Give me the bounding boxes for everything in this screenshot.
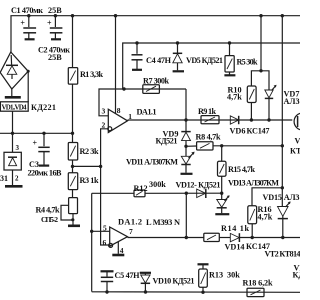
node VD9 R8 xyxy=(184,145,187,148)
node R16 bracket xyxy=(281,186,284,189)
wire bridge minus lead xyxy=(11,89,13,96)
wire bottom rail xyxy=(92,291,300,294)
svg-text:R7 300k: R7 300k xyxy=(143,77,169,86)
svg-text:+: + xyxy=(20,19,25,28)
resistor R13 xyxy=(198,264,209,292)
svg-text:R5 30k: R5 30k xyxy=(237,58,258,67)
capacitor C3 xyxy=(33,133,50,165)
ground stab xyxy=(5,185,23,188)
wire bridge out down xyxy=(12,111,14,133)
wire VD14 to edge xyxy=(239,237,300,239)
resistor R9 xyxy=(201,116,219,124)
regulator DA 431 xyxy=(4,133,21,185)
wire bridge plus lead xyxy=(27,71,29,102)
svg-text:VD1..VD4: VD1..VD4 xyxy=(2,104,28,112)
svg-text:VT: VT xyxy=(295,137,301,146)
svg-text:R12: R12 xyxy=(134,184,148,193)
svg-text:4,7k: 4,7k xyxy=(258,213,273,222)
resistor R18 xyxy=(247,288,264,296)
svg-text:4: 4 xyxy=(120,246,124,255)
svg-text:C4 47Н: C4 47Н xyxy=(146,56,172,65)
svg-text:КД521: КД521 xyxy=(156,137,178,146)
wire DA1.1 output xyxy=(128,119,293,121)
svg-text:220мк 16В: 220мк 16В xyxy=(28,169,63,178)
wire R7 to output xyxy=(185,89,187,120)
svg-text:VD12- КД521: VD12- КД521 xyxy=(176,181,221,190)
svg-text:R13: R13 xyxy=(209,271,223,280)
node R1 bottom rail xyxy=(71,132,74,135)
transistor VT1 xyxy=(294,113,311,130)
wire bracket R16 xyxy=(252,188,282,206)
svg-text:DA1.1: DA1.1 xyxy=(137,108,157,117)
node R15 top xyxy=(220,144,223,147)
node feedback rail B join xyxy=(122,87,125,90)
capacitor C2 xyxy=(47,16,62,40)
LED VD7 xyxy=(265,85,277,120)
svg-text:3: 3 xyxy=(102,107,106,116)
svg-text:КТ8: КТ8 xyxy=(290,147,300,156)
node bracket xyxy=(259,69,262,72)
node R1 top xyxy=(71,14,74,17)
node stab top xyxy=(11,132,14,135)
node C4 xyxy=(135,41,138,44)
wire reference to comparators xyxy=(73,165,101,167)
wire R8 to VT column xyxy=(213,145,282,147)
node VD15 bottom xyxy=(281,236,284,239)
node C3 top xyxy=(42,132,45,135)
wire R12 comparator2 input xyxy=(92,192,134,194)
node R13 bottom xyxy=(201,291,204,294)
node R2 R3 junction xyxy=(71,165,74,168)
node ref at pin2 line xyxy=(99,165,102,168)
diode VD12 xyxy=(197,189,206,198)
zener VD9 xyxy=(181,120,190,146)
svg-text:300k: 300k xyxy=(149,180,166,189)
terminal bar bridge xyxy=(5,96,21,99)
resistor R2 xyxy=(68,133,77,173)
resistor R14 xyxy=(204,233,220,241)
resistor R8 xyxy=(197,142,213,150)
node VD7 bottom xyxy=(267,118,270,121)
resistor R3 xyxy=(68,173,77,198)
svg-text:VD6: VD6 xyxy=(230,127,246,136)
node VT column join xyxy=(281,144,284,147)
node VD15 column top xyxy=(281,14,284,17)
diode VD10 xyxy=(140,273,151,292)
svg-text:L M393 N: L M393 N xyxy=(146,218,180,227)
ground DA1.2 xyxy=(112,254,124,257)
svg-text:КД221: КД221 xyxy=(31,103,56,112)
svg-text:+: + xyxy=(47,19,52,28)
svg-text:DA1.2: DA1.2 xyxy=(118,218,142,227)
capacitor C1 xyxy=(20,16,36,40)
svg-text:VD10 КД521: VD10 КД521 xyxy=(153,277,195,286)
svg-text:2: 2 xyxy=(15,175,19,183)
diode VD5 xyxy=(173,43,184,71)
svg-text:2: 2 xyxy=(102,121,106,130)
svg-text:4,7k: 4,7k xyxy=(227,93,242,102)
node C2 top xyxy=(54,14,57,17)
box VD1..VD4 label xyxy=(0,102,28,112)
capacitor C5 xyxy=(101,271,114,292)
svg-text:R9 1k: R9 1k xyxy=(198,107,216,116)
node C1 top xyxy=(27,14,30,17)
svg-text:R3 1k: R3 1k xyxy=(80,176,99,185)
LED VD11 xyxy=(181,146,195,174)
wire VT2 column xyxy=(281,16,283,206)
node R12 wire output link xyxy=(185,192,188,195)
ground R4 xyxy=(68,225,80,228)
svg-text:R4 4,7k: R4 4,7k xyxy=(36,206,60,215)
capacitor C4 xyxy=(132,43,143,70)
svg-text:25В: 25В xyxy=(48,6,62,15)
LED VD15 xyxy=(278,201,291,237)
LED VD13 xyxy=(215,193,229,214)
resistor R7 xyxy=(143,85,160,94)
diode VD6 xyxy=(230,116,238,124)
svg-text:3: 3 xyxy=(16,144,20,152)
svg-text:+: + xyxy=(33,139,38,148)
node DA1 pin8 supply xyxy=(114,14,117,17)
wire rail C regulated xyxy=(0,132,73,134)
svg-text:VD14: VD14 xyxy=(225,243,245,252)
svg-text:R18 6,2k: R18 6,2k xyxy=(243,279,273,288)
svg-text:30k: 30k xyxy=(227,271,240,280)
svg-text:R1 3,3k: R1 3,3k xyxy=(80,70,103,79)
wire pin2 vertical to pin6 xyxy=(101,129,109,245)
wire DA1.2 output xyxy=(128,237,204,239)
svg-text:КС147: КС147 xyxy=(247,127,270,136)
wire pin5 xyxy=(92,230,110,232)
svg-text:R14 1k: R14 1k xyxy=(221,224,249,233)
svg-text:8: 8 xyxy=(117,106,121,115)
node R5 xyxy=(228,41,231,44)
svg-text:C1 470мк: C1 470мк xyxy=(11,6,43,15)
wire pin3 hook xyxy=(99,89,186,116)
node VD10 bottom xyxy=(144,290,147,293)
wire pin4 ground xyxy=(117,242,119,254)
node LED column top xyxy=(259,14,262,17)
svg-text:VD5 КД521: VD5 КД521 xyxy=(186,56,223,65)
wire hook to pin5 xyxy=(91,193,93,291)
node pin5 xyxy=(90,230,93,233)
wire bracket R10 VD7 xyxy=(251,71,269,90)
svg-text:7: 7 xyxy=(129,227,133,236)
svg-text:6: 6 xyxy=(103,238,107,247)
svg-text:VD11 АЛ307КМ: VD11 АЛ307КМ xyxy=(126,158,178,167)
wire output node to R12 wire xyxy=(185,193,187,237)
node output link xyxy=(185,236,188,239)
wire top rail +V xyxy=(11,16,300,52)
node R16 bottom xyxy=(251,236,254,239)
svg-text:31: 31 xyxy=(0,174,8,183)
resistor R5 xyxy=(224,43,235,75)
svg-text:25В: 25В xyxy=(48,53,62,62)
svg-text:R8 4,7k: R8 4,7k xyxy=(196,133,221,142)
node C5 bottom xyxy=(105,290,108,293)
resistor R10 xyxy=(247,86,256,120)
node output R7 xyxy=(184,118,187,121)
svg-text:C5 47Н: C5 47Н xyxy=(115,271,141,280)
svg-text:VD13 АЛ307КМ: VD13 АЛ307КМ xyxy=(228,179,279,188)
resistor R15 xyxy=(218,146,227,193)
op-amp DA1.1 xyxy=(102,106,133,133)
bridge rectifier VD1..VD4 xyxy=(0,52,30,89)
svg-text:КД: КД xyxy=(293,271,301,280)
node VD13 top xyxy=(220,192,223,195)
op-amp DA1.2 xyxy=(103,224,134,256)
wire DA1 pin8 supply xyxy=(115,16,117,114)
wire LED supply column xyxy=(260,16,262,71)
svg-text:АЛ3: АЛ3 xyxy=(284,97,300,106)
node R10 bottom xyxy=(250,118,253,121)
trimmer R4 СП5-2 xyxy=(61,198,78,225)
diode VD14 xyxy=(230,233,239,242)
svg-text:VD15 АЛ3: VD15 АЛ3 xyxy=(263,193,300,202)
resistor R1 xyxy=(68,16,77,134)
svg-text:R15 4,7k: R15 4,7k xyxy=(228,165,255,174)
svg-text:VT2 КТ814: VT2 КТ814 xyxy=(265,250,301,259)
wire rail B sense xyxy=(123,43,300,89)
svg-text:СП5-2: СП5-2 xyxy=(41,215,58,224)
svg-text:R2 3k: R2 3k xyxy=(80,147,99,156)
wire R14 to VD14 xyxy=(219,237,230,239)
resistor R12 xyxy=(134,190,145,197)
node VD5 xyxy=(176,41,179,44)
resistor R16 xyxy=(248,206,257,238)
wire R8 feed xyxy=(186,145,197,147)
